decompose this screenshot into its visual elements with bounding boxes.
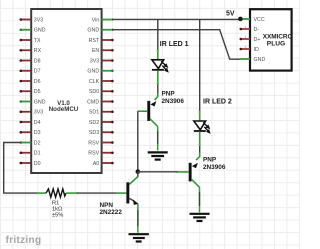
svg-text:PNP: PNP [162, 91, 176, 98]
svg-text:GND: GND [87, 69, 99, 75]
wire 5V rail to IR LED 1 anode [157, 19, 159, 51]
connector J1 XXMICRO PLUG body [250, 9, 292, 70]
svg-text:D-: D- [254, 27, 260, 33]
svg-text:D+: D+ [254, 37, 261, 43]
svg-text:D7: D7 [34, 69, 41, 75]
NodeMCU right pin labels [87, 17, 100, 167]
svg-text:SD2: SD2 [89, 120, 99, 126]
svg-text:2N2222: 2N2222 [100, 209, 123, 216]
XXMICRO PLUG pins (VCC D- D+ ID GND) [240, 19, 251, 59]
wire Q3 emitter to ground [137, 204, 139, 233]
node A junction dot (Q3 collector / Q1 Q2 bases) [136, 169, 141, 174]
svg-text:R1: R1 [52, 201, 59, 207]
svg-text:D4: D4 [34, 120, 41, 126]
svg-text:RSV: RSV [88, 151, 99, 157]
label R1 1kΩ ±5% [52, 201, 63, 219]
wire Q1 base down to node A [137, 111, 139, 171]
svg-text:RX: RX [34, 48, 42, 54]
svg-text:TX: TX [34, 38, 41, 44]
svg-text:D3: D3 [34, 130, 41, 136]
svg-text:D1: D1 [34, 151, 41, 157]
svg-text:fritzing: fritzing [6, 235, 42, 246]
svg-text:PNP: PNP [203, 157, 217, 164]
label Q1 PNP 2N3906 [162, 91, 185, 105]
svg-text:3V3: 3V3 [90, 58, 99, 64]
svg-text:SD0: SD0 [89, 89, 99, 95]
svg-text:RSV: RSV [88, 140, 99, 146]
svg-text:D5: D5 [34, 89, 41, 95]
svg-text:D2: D2 [34, 140, 41, 146]
wire Vin to 5V node (net 5V) [112, 18, 240, 20]
svg-text:2N3906: 2N3906 [203, 164, 226, 171]
svg-text:GND: GND [254, 57, 266, 63]
svg-text:SD3: SD3 [89, 130, 99, 136]
ground symbol under Q1 [148, 152, 168, 159]
svg-text:ID: ID [254, 47, 259, 53]
svg-text:EN: EN [92, 48, 100, 54]
NodeMCU right pins (Vin GND RST EN 3V3 GND CLK SD0 CMD SD1 SD2 SD3 RSV RSV A0) [102, 18, 114, 164]
wire R1 to Q3 base [77, 192, 117, 194]
svg-text:CMD: CMD [87, 99, 99, 105]
svg-text:1kΩ: 1kΩ [52, 207, 62, 213]
wire IR LED 1 cathode to Q1 emitter [157, 85, 159, 94]
wire Q1 collector to ground [157, 127, 159, 151]
svg-text:PLUG: PLUG [267, 40, 285, 47]
node 5V junction dot [238, 17, 243, 22]
svg-text:GND: GND [34, 28, 46, 34]
svg-text:2N3906: 2N3906 [162, 98, 185, 105]
svg-text:IR LED 2: IR LED 2 [203, 99, 232, 106]
svg-text:3V3: 3V3 [34, 17, 43, 23]
svg-text:VCC: VCC [254, 17, 265, 23]
svg-text:3V3: 3V3 [34, 110, 43, 116]
svg-text:GND: GND [87, 28, 99, 34]
svg-text:CLK: CLK [89, 79, 100, 85]
IR LED 1 (diode symbol) [152, 50, 169, 85]
svg-text:A0: A0 [93, 161, 100, 167]
svg-text:D0: D0 [34, 161, 41, 167]
svg-text:GND: GND [34, 99, 46, 105]
NodeMCU left pins (3V3 GND TX RX D8 D7 D6 D5 GND 3V3 D4 D3 D2 D1 D0) [20, 18, 32, 164]
NodeMCU left pin labels [34, 17, 46, 167]
transistor Q2 PNP 2N3906 [177, 153, 200, 188]
NodeMCU title label V1.0 NodeMCU [49, 100, 79, 113]
transistor Q1 PNP 2N3906 [138, 93, 158, 127]
ground symbol under Q3 [129, 234, 149, 241]
svg-text:RST: RST [89, 38, 100, 44]
wire Q2 collector to ground [199, 187, 201, 212]
label Q3 NPN 2N2222 [100, 202, 123, 216]
svg-text:5V: 5V [226, 11, 235, 18]
IR LED 2 (diode symbol) [194, 111, 211, 146]
svg-text:Vin: Vin [92, 17, 100, 23]
label Q2 PNP 2N3906 [203, 157, 226, 171]
wire NodeMCU D2 to resistor R1 [4, 143, 39, 194]
wire NodeMCU GND to XXMICRO GND [112, 30, 240, 60]
svg-text:XXMICRO: XXMICRO [263, 33, 293, 40]
svg-text:SD1: SD1 [89, 110, 99, 116]
svg-text:D8: D8 [34, 58, 41, 64]
XXMICRO PLUG pin labels [254, 17, 266, 63]
svg-text:±5%: ±5% [52, 213, 63, 219]
wire IR LED 2 cathode to Q2 emitter [199, 146, 201, 153]
IC U1 NodeMCU V1.0 body [31, 9, 101, 173]
svg-text:D6: D6 [34, 79, 41, 85]
svg-text:IR LED 1: IR LED 1 [160, 41, 189, 48]
wire 5V rail to IR LED 2 anode [199, 19, 201, 112]
ground symbol under Q2 [190, 214, 210, 221]
resistor R1 [37, 189, 78, 197]
wire node A to Q2 base [138, 171, 178, 173]
transistor Q3 NPN 2N2222 [117, 172, 139, 205]
svg-text:NodeMCU: NodeMCU [49, 106, 79, 113]
svg-text:NPN: NPN [100, 202, 114, 209]
